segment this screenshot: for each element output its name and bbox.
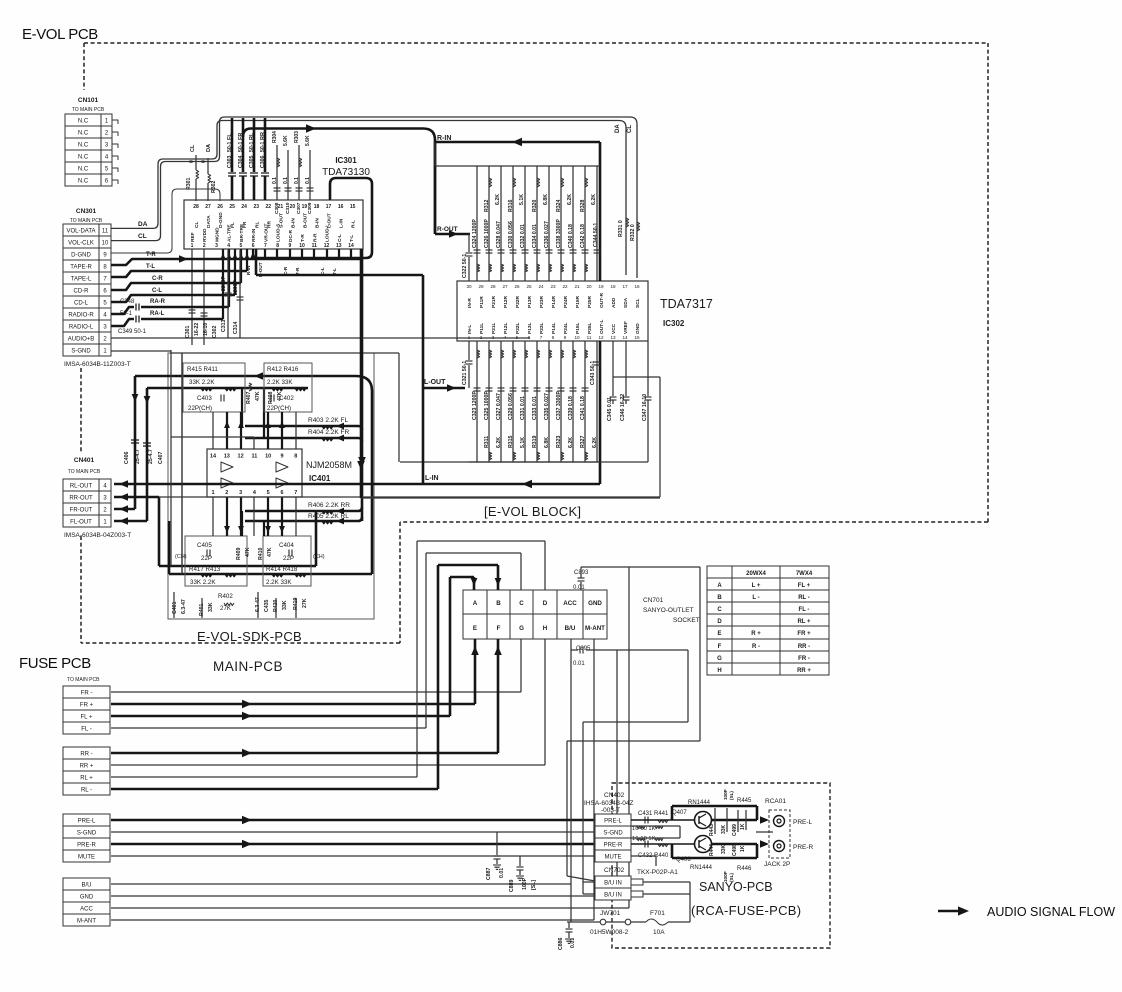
svg-text:25-4.7: 25-4.7 [148, 449, 154, 464]
svg-text:33K: 33K [282, 600, 288, 610]
svg-text:19: 19 [598, 284, 604, 289]
svg-text:B: B [717, 595, 722, 601]
svg-text:RA-R: RA-R [150, 299, 166, 305]
svg-text:VR-OUT: VR-OUT [263, 224, 269, 242]
svg-text:B-IN: B-IN [315, 218, 321, 228]
svg-text:P22L: P22L [515, 322, 521, 334]
svg-text:R415 R411: R415 R411 [187, 366, 218, 373]
svg-text:P15R: P15R [575, 295, 581, 308]
svg-text:20: 20 [586, 284, 592, 289]
svg-text:100P: 100P [522, 877, 528, 890]
svg-text:6.8K: 6.8K [544, 437, 550, 448]
svg-text:12: 12 [238, 454, 244, 460]
svg-text:FL: FL [227, 133, 233, 140]
svg-text:C346 16-22: C346 16-22 [620, 394, 626, 421]
svg-text:RN1444: RN1444 [690, 865, 713, 871]
svg-text:AL-TRE: AL-TRE [227, 224, 233, 242]
svg-text:C406: C406 [124, 451, 130, 464]
svg-text:FL -: FL - [81, 727, 91, 733]
svg-text:RR +: RR + [80, 764, 94, 770]
svg-text:R302: R302 [211, 180, 217, 193]
svg-text:C: C [717, 607, 722, 613]
svg-text:ACC: ACC [80, 907, 93, 913]
svg-text:B/U: B/U [565, 625, 576, 632]
svg-text:0.01: 0.01 [499, 868, 505, 878]
svg-text:CD-R: CD-R [74, 289, 90, 295]
svg-text:R417 R413: R417 R413 [189, 566, 221, 573]
svg-text:C330 0.056: C330 0.056 [508, 221, 514, 248]
svg-text:C305: C305 [249, 155, 255, 168]
svg-text:28: 28 [490, 284, 496, 289]
svg-text:16: 16 [634, 284, 640, 289]
svg-text:C-R: C-R [152, 276, 163, 282]
svg-text:R331 0: R331 0 [618, 220, 624, 237]
svg-text:GND: GND [588, 600, 602, 607]
svg-text:15: 15 [634, 335, 640, 340]
svg-text:27: 27 [502, 284, 508, 289]
svg-text:6.2K: 6.2K [567, 194, 573, 205]
svg-text:N.C: N.C [78, 167, 89, 173]
svg-text:C323 1200P: C323 1200P [472, 391, 478, 420]
svg-text:FR-OUT: FR-OUT [70, 508, 93, 514]
svg-text:P14L: P14L [551, 322, 557, 334]
svg-text:C325 1000P: C325 1000P [484, 391, 490, 420]
svg-text:C337 3300P: C337 3300P [556, 391, 562, 420]
svg-text:RR-IN: RR-IN [251, 228, 257, 242]
svg-text:6.2K: 6.2K [495, 194, 501, 205]
svg-text:22: 22 [562, 284, 568, 289]
svg-text:FL +: FL + [798, 583, 811, 589]
svg-text:R304: R304 [272, 131, 278, 143]
svg-text:FR +: FR + [797, 631, 811, 637]
svg-text:CN101: CN101 [78, 97, 99, 104]
svg-text:R324: R324 [556, 199, 562, 212]
svg-text:100P: 100P [723, 789, 728, 800]
svg-text:C404: C404 [279, 542, 294, 549]
svg-text:10: 10 [102, 241, 109, 247]
svg-text:1: 1 [211, 490, 214, 496]
svg-text:(CH): (CH) [313, 554, 325, 560]
svg-text:6.3-47: 6.3-47 [181, 599, 187, 614]
svg-text:2: 2 [203, 243, 206, 249]
svg-text:FR: FR [238, 133, 244, 140]
svg-text:C301: C301 [185, 325, 191, 338]
svg-text:21: 21 [574, 284, 580, 289]
svg-text:FR +: FR + [80, 703, 94, 709]
svg-text:2200P: 2200P [233, 279, 239, 295]
svg-text:SDA: SDA [623, 297, 629, 308]
svg-text:D: D [717, 619, 722, 625]
svg-text:P12R: P12R [503, 295, 509, 308]
svg-text:4: 4 [227, 243, 230, 249]
svg-text:FUSE PCB: FUSE PCB [19, 655, 91, 672]
svg-text:CN701: CN701 [643, 597, 664, 604]
svg-text:P23R: P23R [539, 295, 545, 308]
svg-text:01H5W008-2: 01H5W008-2 [590, 929, 629, 936]
svg-text:L -: L - [752, 595, 759, 601]
svg-text:0: 0 [201, 160, 207, 163]
svg-text:12: 12 [324, 243, 330, 249]
svg-text:C302: C302 [212, 325, 218, 338]
svg-text:R407: R407 [246, 391, 252, 404]
svg-text:GND: GND [80, 895, 94, 901]
svg-text:6.2K: 6.2K [496, 437, 502, 448]
svg-text:C333 0.01: C333 0.01 [532, 396, 538, 420]
svg-text:11: 11 [102, 229, 109, 235]
svg-text:MGND: MGND [214, 227, 220, 242]
svg-text:TDA73130: TDA73130 [322, 167, 370, 178]
svg-text:L +: L + [752, 583, 761, 589]
svg-text:9: 9 [288, 243, 291, 249]
svg-text:H: H [717, 668, 721, 674]
svg-text:N.C: N.C [78, 143, 89, 149]
svg-text:E-VOL PCB: E-VOL PCB [22, 26, 98, 43]
svg-text:E-VOL-SDK-PCB: E-VOL-SDK-PCB [197, 629, 302, 644]
svg-text:C-L: C-L [152, 288, 162, 294]
svg-text:NJM2058M: NJM2058M [306, 460, 352, 470]
svg-text:16: 16 [338, 204, 344, 210]
svg-text:16-10: 16-10 [203, 323, 209, 336]
svg-text:(SL): (SL) [729, 791, 734, 800]
svg-text:C345 0.01: C345 0.01 [607, 397, 613, 421]
svg-text:CL: CL [138, 233, 147, 240]
svg-text:R -: R - [752, 644, 760, 650]
svg-text:T-L: T-L [146, 264, 155, 270]
svg-text:2: 2 [225, 490, 228, 496]
svg-text:C886: C886 [558, 937, 564, 950]
svg-text:R410: R410 [258, 547, 264, 560]
svg-text:R303: R303 [294, 131, 300, 143]
svg-text:R301: R301 [186, 177, 192, 190]
svg-text:F: F [497, 625, 501, 632]
svg-text:1K: 1K [740, 845, 746, 852]
svg-text:TO MAIN PCB: TO MAIN PCB [70, 218, 103, 224]
svg-text:AUDIO SIGNAL FLOW: AUDIO SIGNAL FLOW [987, 905, 1115, 919]
svg-text:BR-TRE: BR-TRE [239, 223, 245, 242]
svg-text:50-1: 50-1 [249, 142, 255, 152]
svg-text:(SL): (SL) [729, 873, 734, 882]
svg-text:C343 50-1: C343 50-1 [590, 361, 596, 385]
svg-text:47K: 47K [255, 391, 261, 401]
svg-text:3: 3 [215, 243, 218, 249]
svg-text:6.2K: 6.2K [568, 437, 574, 448]
svg-text:R402: R402 [218, 593, 233, 600]
svg-text:2.2K 33K: 2.2K 33K [266, 579, 292, 586]
svg-text:24: 24 [241, 204, 247, 210]
svg-text:0.1: 0.1 [283, 177, 289, 184]
svg-text:R-L: R-L [351, 220, 357, 228]
svg-text:33K: 33K [721, 824, 727, 834]
svg-text:[E-VOL BLOCK]: [E-VOL BLOCK] [484, 504, 581, 519]
svg-text:14: 14 [210, 454, 217, 460]
svg-text:(CH): (CH) [175, 554, 187, 560]
svg-text:22P: 22P [201, 555, 212, 562]
svg-text:8: 8 [552, 335, 555, 340]
svg-text:IMSA-6034B-04Z003-T: IMSA-6034B-04Z003-T [64, 532, 131, 539]
svg-text:D-GND: D-GND [71, 253, 91, 259]
svg-text:1: 1 [191, 243, 194, 249]
svg-text:REF: REF [190, 232, 196, 242]
svg-text:C326 1000P: C326 1000P [484, 219, 490, 248]
svg-text:C407: C407 [158, 451, 164, 464]
svg-text:P25R: P25R [587, 295, 593, 308]
svg-text:C328 0.047: C328 0.047 [496, 221, 502, 248]
svg-text:OUT-R: OUT-R [599, 293, 605, 308]
svg-text:47K: 47K [277, 391, 283, 401]
svg-text:TKX-P02P-A1: TKX-P02P-A1 [637, 869, 678, 876]
svg-text:R327: R327 [580, 435, 586, 448]
svg-text:D: D [543, 600, 548, 607]
svg-text:C339 0.18: C339 0.18 [568, 396, 574, 420]
svg-text:N.C: N.C [78, 155, 89, 161]
svg-text:0.1: 0.1 [272, 177, 278, 184]
svg-text:5: 5 [240, 243, 243, 249]
svg-text:LOUD-L: LOUD-L [325, 224, 331, 242]
svg-text:25: 25 [229, 204, 235, 210]
svg-text:C403: C403 [197, 395, 212, 402]
svg-text:CN401: CN401 [74, 457, 95, 464]
svg-text:FL-OUT: FL-OUT [70, 520, 92, 526]
svg-text:MUTE: MUTE [605, 855, 622, 861]
svg-text:TO MAIN PCB: TO MAIN PCB [72, 107, 105, 113]
svg-text:R414 R418: R414 R418 [266, 566, 298, 573]
svg-text:RR -: RR - [80, 752, 92, 758]
svg-text:CL: CL [190, 144, 196, 152]
svg-text:TDA7317: TDA7317 [660, 297, 713, 311]
svg-text:RR: RR [260, 132, 266, 140]
svg-text:P21L: P21L [491, 322, 497, 334]
svg-text:C331 0.01: C331 0.01 [520, 396, 526, 420]
svg-text:47K: 47K [267, 547, 273, 557]
svg-text:C310: C310 [285, 202, 291, 214]
svg-text:R445: R445 [737, 798, 752, 804]
svg-text:P13L: P13L [527, 322, 533, 334]
svg-text:2.2K 33K: 2.2K 33K [267, 379, 293, 386]
svg-text:FL -: FL - [799, 607, 810, 613]
svg-text:B-OUT: B-OUT [302, 213, 308, 228]
svg-text:PRE-R: PRE-R [793, 844, 814, 851]
svg-text:R412 R416: R412 R416 [267, 366, 299, 373]
svg-text:Q407: Q407 [672, 810, 687, 816]
svg-text:RL: RL [254, 222, 260, 228]
svg-text:T-L: T-L [349, 235, 355, 242]
svg-text:C309: C309 [307, 202, 313, 214]
svg-text:27K: 27K [302, 598, 308, 608]
svg-text:CN402: CN402 [604, 792, 625, 799]
svg-text:7WX4: 7WX4 [796, 571, 813, 577]
svg-text:0: 0 [189, 160, 195, 163]
svg-text:13: 13 [336, 243, 342, 249]
svg-text:SOCKET: SOCKET [673, 617, 700, 624]
svg-text:6: 6 [252, 243, 255, 249]
svg-text:9: 9 [564, 335, 567, 340]
svg-text:C336 0.027: C336 0.027 [544, 221, 550, 248]
svg-text:RADIO-L: RADIO-L [69, 325, 94, 331]
svg-text:RA-L: RA-L [150, 311, 165, 317]
svg-text:28: 28 [193, 204, 199, 210]
svg-text:TO MAIN PCB: TO MAIN PCB [67, 677, 100, 683]
svg-text:7: 7 [540, 335, 543, 340]
svg-text:C498: C498 [732, 844, 738, 856]
svg-text:CL: CL [194, 222, 200, 228]
svg-text:C335 0.027: C335 0.027 [544, 393, 550, 420]
svg-text:13: 13 [610, 335, 616, 340]
svg-text:A: A [473, 600, 478, 607]
svg-text:RL -: RL - [81, 788, 92, 794]
svg-text:24: 24 [538, 284, 544, 289]
svg-text:9: 9 [280, 454, 283, 460]
svg-text:B/U IN: B/U IN [604, 881, 622, 887]
svg-text:14: 14 [348, 243, 354, 249]
svg-text:5: 5 [267, 490, 270, 496]
svg-text:C349 50-1: C349 50-1 [118, 329, 147, 335]
svg-text:29: 29 [478, 284, 484, 289]
svg-text:33K: 33K [721, 844, 727, 854]
svg-text:CD-L: CD-L [74, 301, 89, 307]
svg-text:5.6K: 5.6K [305, 135, 311, 146]
svg-text:DA: DA [206, 144, 212, 152]
svg-text:IC401: IC401 [309, 474, 331, 483]
svg-text:C887: C887 [486, 867, 492, 880]
svg-text:IC301: IC301 [335, 156, 357, 165]
svg-text:RL +: RL + [80, 776, 93, 782]
svg-text:JW701: JW701 [600, 910, 621, 917]
svg-text:M-ANT: M-ANT [585, 625, 605, 632]
svg-text:RR-OUT: RR-OUT [69, 496, 93, 502]
svg-text:11: 11 [251, 454, 257, 460]
svg-text:C307: C307 [296, 202, 302, 214]
svg-text:H: H [543, 625, 548, 632]
svg-text:100P: 100P [723, 871, 728, 882]
svg-text:IC302: IC302 [663, 319, 685, 328]
svg-text:33K: 33K [208, 602, 214, 612]
svg-text:7: 7 [264, 243, 267, 249]
svg-text:DATA: DATA [206, 215, 212, 228]
svg-text:23: 23 [253, 204, 259, 210]
svg-text:33K 2.2K: 33K 2.2K [190, 579, 216, 586]
svg-text:2200P: 2200P [221, 275, 227, 291]
svg-text:C893: C893 [574, 570, 589, 576]
svg-text:PRE-L: PRE-L [78, 819, 96, 825]
svg-text:23: 23 [550, 284, 556, 289]
svg-text:C321 50-1: C321 50-1 [462, 361, 468, 385]
svg-text:18: 18 [610, 284, 616, 289]
svg-text:F701: F701 [650, 910, 665, 917]
svg-text:0.01: 0.01 [573, 585, 585, 591]
svg-text:C431 R441: C431 R441 [638, 811, 669, 817]
svg-text:R316: R316 [508, 199, 514, 212]
svg-text:C347 16-10: C347 16-10 [642, 394, 648, 421]
svg-text:26: 26 [514, 284, 520, 289]
svg-text:C341 0.18: C341 0.18 [580, 396, 586, 420]
svg-text:E: E [717, 631, 721, 637]
svg-text:50-1: 50-1 [238, 142, 244, 152]
svg-text:B: B [496, 600, 501, 607]
svg-text:10: 10 [299, 243, 305, 249]
svg-text:14: 14 [622, 335, 628, 340]
svg-text:TO MAIN PCB: TO MAIN PCB [68, 469, 101, 475]
svg-text:RL: RL [249, 132, 255, 140]
svg-text:30: 30 [466, 284, 472, 289]
svg-text:T-R: T-R [300, 234, 306, 242]
svg-text:5.6K: 5.6K [283, 135, 289, 146]
svg-text:N.C: N.C [78, 179, 89, 185]
svg-text:M-ANT: M-ANT [77, 919, 96, 925]
svg-text:RL -: RL - [798, 595, 810, 601]
svg-text:CL: CL [627, 125, 633, 133]
svg-text:SANYO-PCB: SANYO-PCB [699, 880, 773, 894]
svg-text:0.01: 0.01 [573, 661, 585, 667]
svg-text:CN702: CN702 [604, 867, 625, 874]
svg-text:P14R: P14R [551, 295, 557, 308]
svg-text:IMSA-6034B-11Z003-T: IMSA-6034B-11Z003-T [64, 361, 131, 368]
svg-text:RR -: RR - [798, 644, 810, 650]
svg-text:GND: GND [635, 323, 641, 334]
svg-text:12: 12 [598, 335, 604, 340]
svg-text:5.1K: 5.1K [520, 437, 526, 448]
svg-text:0.1: 0.1 [305, 177, 311, 184]
svg-text:5.1K: 5.1K [519, 194, 525, 205]
svg-text:FR -: FR - [798, 656, 810, 662]
svg-text:C-R: C-R [283, 266, 288, 275]
svg-text:E: E [473, 625, 477, 632]
svg-text:IN-L: IN-L [467, 325, 473, 334]
svg-text:7: 7 [294, 490, 297, 496]
svg-text:P25L: P25L [587, 322, 593, 334]
svg-text:C304: C304 [238, 155, 244, 168]
svg-text:1K: 1K [740, 823, 746, 830]
svg-text:SANYO-OUTLET: SANYO-OUTLET [643, 607, 694, 614]
svg-text:0.01: 0.01 [570, 938, 576, 948]
svg-text:R408: R408 [268, 391, 274, 404]
svg-text:D-GND: D-GND [218, 212, 224, 228]
svg-text:DA: DA [615, 124, 621, 133]
svg-text:C327 0.047: C327 0.047 [496, 393, 502, 420]
svg-text:PRE-R: PRE-R [604, 843, 623, 849]
svg-text:IHSA-6034B-04Z: IHSA-6034B-04Z [584, 800, 634, 807]
svg-text:(RCA-FUSE-PCB): (RCA-FUSE-PCB) [691, 903, 801, 918]
svg-text:19: 19 [302, 204, 308, 210]
svg-text:VCC: VCC [611, 323, 617, 334]
svg-text:PRE-L: PRE-L [604, 819, 622, 825]
svg-text:RL +: RL + [797, 619, 811, 625]
svg-text:C314: C314 [233, 321, 239, 334]
svg-text:S-GND: S-GND [77, 831, 97, 837]
svg-text:SCL: SCL [635, 298, 641, 308]
svg-text:C303: C303 [227, 155, 233, 168]
svg-text:FR -: FR - [81, 691, 93, 697]
svg-text:17: 17 [326, 204, 332, 210]
svg-text:R-R: R-R [312, 233, 318, 242]
svg-text:R443: R443 [709, 824, 715, 836]
svg-text:[SL]: [SL] [531, 880, 537, 890]
svg-text:MAIN-PCB: MAIN-PCB [213, 659, 283, 674]
svg-text:20WX4: 20WX4 [746, 571, 766, 577]
svg-text:10A: 10A [653, 929, 665, 936]
svg-text:N.C: N.C [78, 131, 89, 137]
svg-text:17: 17 [622, 284, 628, 289]
svg-text:P24R: P24R [563, 295, 569, 308]
svg-text:8: 8 [294, 454, 297, 460]
svg-text:PRE-R: PRE-R [77, 843, 96, 849]
svg-text:B/U IN: B/U IN [604, 893, 622, 899]
svg-text:T-R: T-R [146, 252, 156, 258]
svg-text:R409: R409 [236, 547, 242, 560]
svg-text:C-L: C-L [337, 234, 343, 242]
svg-text:L-OUT: L-OUT [424, 379, 446, 386]
svg-text:50-1: 50-1 [227, 142, 233, 152]
svg-text:13: 13 [224, 454, 230, 460]
